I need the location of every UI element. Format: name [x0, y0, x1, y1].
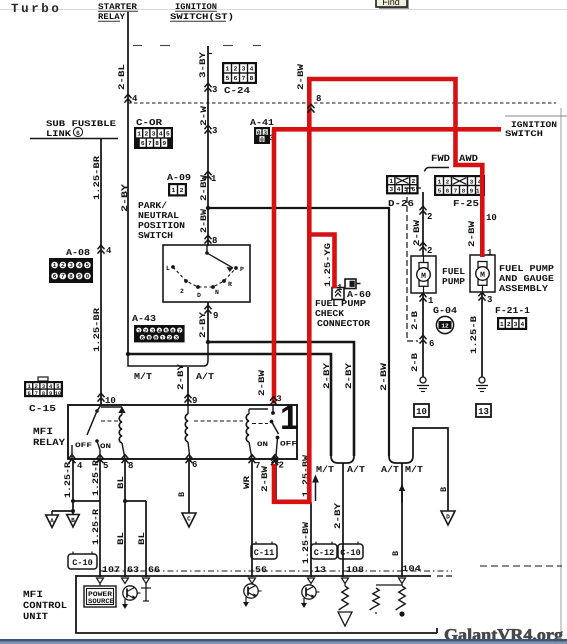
svg-text:2: 2	[180, 187, 184, 194]
svg-text:2-BW: 2-BW	[257, 369, 267, 396]
svg-text:6: 6	[429, 339, 434, 349]
svg-text:2: 2	[168, 335, 171, 342]
svg-text:2-BW: 2-BW	[260, 465, 270, 492]
svg-text:6: 6	[412, 186, 416, 193]
svg-text:5: 5	[86, 262, 90, 269]
svg-text:2-BY: 2-BY	[176, 363, 186, 390]
svg-text:9: 9	[162, 140, 166, 147]
svg-text:2-BY: 2-BY	[344, 362, 354, 389]
svg-text:4: 4	[250, 66, 254, 73]
svg-text:B: B	[71, 517, 75, 524]
svg-text:C-OR: C-OR	[136, 118, 163, 128]
svg-text:C-12: C-12	[314, 548, 334, 558]
svg-text:3: 3	[69, 262, 73, 269]
svg-text:13: 13	[314, 565, 326, 575]
svg-text:M/T: M/T	[316, 465, 335, 475]
svg-text:3: 3	[389, 186, 393, 193]
svg-text:2-BL: 2-BL	[117, 64, 127, 90]
svg-text:9: 9	[470, 187, 474, 194]
svg-text:F-25: F-25	[453, 199, 479, 209]
svg-text:2-BW: 2-BW	[467, 220, 477, 247]
svg-text:6: 6	[141, 140, 145, 147]
svg-text:63: 63	[127, 565, 139, 575]
svg-text:3: 3	[212, 126, 217, 136]
svg-text:FWD: FWD	[431, 153, 450, 164]
svg-text:D-26: D-26	[388, 199, 414, 209]
svg-text:8: 8	[128, 461, 133, 471]
svg-text:1: 1	[137, 131, 141, 138]
svg-text:10: 10	[486, 213, 497, 223]
svg-text:6: 6	[234, 75, 238, 82]
svg-text:7: 7	[61, 273, 65, 280]
svg-text:M: M	[480, 271, 485, 280]
svg-text:A: A	[50, 518, 54, 525]
svg-text:1.25-R: 1.25-R	[91, 459, 101, 496]
svg-text:5: 5	[226, 75, 230, 82]
svg-text:B: B	[177, 492, 187, 497]
svg-text:2: 2	[427, 212, 432, 222]
svg-text:1: 1	[500, 321, 504, 328]
svg-text:FUEL: FUEL	[442, 267, 465, 277]
svg-text:BL: BL	[137, 532, 147, 545]
svg-text:4: 4	[106, 246, 112, 256]
svg-text:1: 1	[438, 178, 442, 185]
svg-text:9: 9	[77, 273, 81, 280]
svg-text:6: 6	[171, 327, 174, 334]
svg-text:BL: BL	[116, 476, 126, 489]
svg-text:RELAY: RELAY	[98, 12, 126, 22]
svg-text:7: 7	[35, 390, 38, 397]
svg-text:3: 3	[242, 66, 246, 73]
svg-text:C-24: C-24	[224, 86, 251, 96]
svg-text:LINK: LINK	[46, 129, 72, 139]
svg-text:1: 1	[389, 178, 393, 185]
svg-text:1: 1	[226, 66, 230, 73]
svg-text:4: 4	[520, 321, 524, 328]
svg-text:RELAY: RELAY	[33, 437, 65, 448]
svg-text:ASSEMBLY: ASSEMBLY	[499, 284, 549, 294]
svg-text:D: D	[197, 292, 201, 299]
svg-text:7: 7	[454, 187, 458, 194]
svg-text:1.25-R: 1.25-R	[91, 508, 101, 545]
svg-text:8: 8	[155, 140, 159, 147]
svg-text:0: 0	[86, 273, 90, 280]
svg-text:C-15: C-15	[29, 404, 56, 414]
svg-text:2: 2	[427, 246, 432, 256]
svg-text:1: 1	[211, 174, 217, 184]
svg-text:D: D	[446, 514, 450, 521]
svg-text:SWITCH: SWITCH	[138, 231, 173, 241]
svg-text:2: 2	[180, 288, 184, 295]
svg-text:2: 2	[412, 178, 416, 185]
svg-text:2: 2	[234, 66, 238, 73]
svg-text:PUMP: PUMP	[442, 277, 466, 287]
svg-text:C-10: C-10	[72, 558, 92, 568]
svg-text:5: 5	[438, 187, 442, 194]
svg-text:ON: ON	[257, 441, 268, 449]
svg-text:9: 9	[147, 335, 150, 342]
svg-text:M: M	[421, 272, 426, 281]
svg-text:6: 6	[192, 460, 197, 470]
svg-text:1.25-BR: 1.25-BR	[92, 307, 102, 352]
svg-text:C: C	[187, 516, 191, 523]
svg-text:2-B: 2-B	[410, 311, 420, 330]
svg-text:Find: Find	[382, 0, 400, 7]
svg-text:7: 7	[148, 140, 152, 147]
svg-text:A-43: A-43	[132, 314, 156, 324]
svg-text:2: 2	[279, 461, 284, 471]
svg-text:SUB FUSIBLE: SUB FUSIBLE	[46, 119, 116, 129]
svg-text:108: 108	[346, 565, 364, 575]
svg-text:1.25-BW: 1.25-BW	[301, 521, 311, 564]
svg-text:1.25-R: 1.25-R	[63, 461, 73, 498]
svg-text:2-BY: 2-BY	[333, 502, 343, 529]
svg-text:OFF: OFF	[280, 441, 297, 449]
svg-text:A/T: A/T	[347, 465, 366, 475]
svg-text:10: 10	[416, 407, 427, 417]
svg-text:OFF: OFF	[75, 442, 92, 450]
svg-text:2-BW: 2-BW	[379, 362, 389, 391]
svg-text:A-41: A-41	[250, 118, 275, 128]
svg-text:2-BW: 2-BW	[296, 63, 306, 90]
svg-text:5: 5	[166, 131, 170, 138]
svg-text:N: N	[215, 289, 219, 296]
svg-text:P: P	[240, 266, 244, 273]
svg-text:2-BW: 2-BW	[199, 174, 209, 201]
svg-text:7: 7	[242, 75, 246, 82]
svg-text:3: 3	[263, 129, 267, 136]
svg-text:1: 1	[487, 248, 493, 258]
svg-text:MFI: MFI	[33, 426, 53, 437]
svg-text:1: 1	[280, 399, 299, 437]
svg-text:WR: WR	[242, 475, 252, 489]
svg-text:IGNITION: IGNITION	[175, 2, 217, 12]
svg-text:SWITCH(ST): SWITCH(ST)	[170, 12, 234, 22]
svg-text:2-B: 2-B	[410, 353, 420, 372]
svg-text:B: B	[391, 551, 401, 556]
svg-text:M/T: M/T	[405, 465, 424, 475]
svg-text:4: 4	[77, 262, 81, 269]
svg-text:C-10: C-10	[340, 548, 360, 558]
svg-text:13: 13	[478, 407, 489, 417]
svg-text:5: 5	[103, 461, 108, 471]
svg-text:POSITION: POSITION	[138, 221, 185, 231]
svg-text:AWD: AWD	[459, 153, 478, 164]
svg-text:4: 4	[77, 461, 83, 471]
svg-text:C-11: C-11	[254, 548, 274, 558]
svg-text:8: 8	[69, 273, 73, 280]
svg-text:2-BY: 2-BY	[198, 311, 208, 338]
svg-text:0: 0	[154, 335, 157, 342]
svg-text:L: L	[166, 265, 170, 272]
svg-text:10: 10	[55, 390, 62, 397]
svg-text:FUEL PUMP: FUEL PUMP	[499, 264, 555, 274]
svg-text:107: 107	[102, 565, 120, 575]
svg-text:SWITCH: SWITCH	[505, 129, 543, 139]
svg-text:ON: ON	[100, 443, 111, 451]
svg-text:1.25-YG: 1.25-YG	[323, 243, 333, 287]
svg-text:8: 8	[462, 187, 466, 194]
svg-text:4: 4	[159, 131, 163, 138]
svg-text:0: 0	[260, 136, 264, 143]
svg-text:1.25-B: 1.25-B	[469, 316, 479, 354]
svg-text:1: 1	[53, 262, 57, 269]
svg-text:3: 3	[487, 295, 492, 305]
svg-text:2: 2	[144, 131, 148, 138]
svg-text:104: 104	[402, 564, 421, 574]
svg-text:F-21-1: F-21-1	[495, 306, 531, 316]
svg-text:4: 4	[132, 94, 138, 104]
svg-text:2-BW: 2-BW	[412, 219, 422, 246]
svg-text:3: 3	[212, 85, 217, 95]
svg-text:A-08: A-08	[66, 248, 90, 258]
svg-text:CONNECTOR: CONNECTOR	[317, 319, 371, 329]
svg-text:Turbo: Turbo	[11, 2, 62, 16]
svg-text:UNIT: UNIT	[23, 611, 48, 622]
svg-text:2-BY: 2-BY	[322, 362, 332, 389]
svg-text:CHECK: CHECK	[315, 309, 345, 319]
svg-text:4: 4	[397, 186, 401, 193]
svg-text:3: 3	[470, 178, 474, 185]
svg-text:9: 9	[49, 390, 52, 397]
svg-text:2-BY: 2-BY	[120, 183, 130, 212]
svg-text:1: 1	[428, 296, 434, 306]
svg-text:56: 56	[255, 565, 267, 575]
svg-text:3: 3	[277, 394, 282, 404]
svg-text:8: 8	[250, 75, 254, 82]
svg-text:B: B	[439, 487, 449, 492]
svg-text:2: 2	[61, 262, 65, 269]
svg-text:NEUTRAL: NEUTRAL	[138, 211, 179, 221]
svg-text:A/T: A/T	[196, 372, 215, 382]
svg-text:2: 2	[507, 321, 511, 328]
svg-text:3: 3	[152, 131, 156, 138]
svg-text:PARK/: PARK/	[138, 201, 167, 211]
svg-text:A/T: A/T	[381, 465, 400, 475]
svg-text:BL: BL	[116, 532, 126, 545]
svg-text:66: 66	[148, 565, 160, 575]
svg-text:A-09: A-09	[167, 173, 191, 183]
svg-text:7: 7	[178, 327, 181, 334]
svg-text:2-BW: 2-BW	[199, 208, 209, 233]
svg-text:0: 0	[257, 129, 261, 136]
svg-text:STARTER: STARTER	[98, 2, 138, 12]
svg-text:1: 1	[172, 187, 176, 194]
svg-text:MFI: MFI	[23, 589, 43, 600]
svg-text:6: 6	[53, 273, 57, 280]
svg-text:SOURCE: SOURCE	[88, 598, 114, 606]
svg-text:2-W: 2-W	[199, 105, 209, 126]
svg-text:2: 2	[446, 178, 450, 185]
svg-text:R: R	[228, 281, 232, 288]
svg-text:3-BY: 3-BY	[198, 51, 208, 78]
svg-text:8: 8	[316, 94, 321, 104]
svg-text:6: 6	[27, 390, 30, 397]
svg-text:6: 6	[446, 187, 450, 194]
svg-text:M/T: M/T	[134, 372, 153, 382]
svg-text:3: 3	[514, 321, 518, 328]
svg-text:PUMP: PUMP	[341, 299, 367, 309]
svg-text:9: 9	[213, 311, 218, 321]
svg-text:AND GAUGE: AND GAUGE	[499, 274, 555, 284]
svg-text:6: 6	[76, 130, 80, 137]
svg-text:12: 12	[441, 323, 449, 330]
svg-text:G-04: G-04	[433, 306, 458, 316]
svg-text:1.25-BR: 1.25-BR	[92, 155, 102, 200]
svg-text:2: 2	[144, 327, 147, 334]
svg-text:CONTROL: CONTROL	[23, 600, 67, 611]
svg-text:FUEL: FUEL	[315, 299, 338, 309]
